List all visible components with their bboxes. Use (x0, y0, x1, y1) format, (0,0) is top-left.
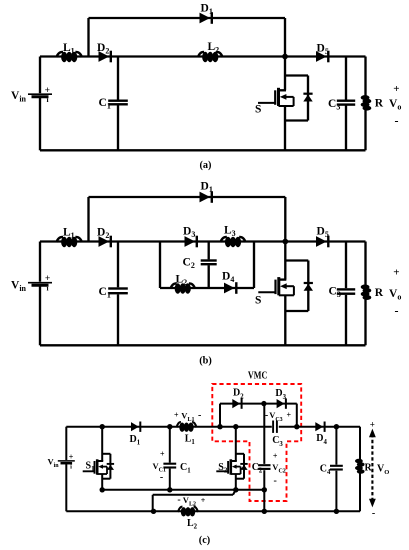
wire: main rail (b) (40, 240, 366, 242)
battery Vin (a) (28, 94, 52, 97)
svg-text:+: + (174, 411, 179, 420)
wire: main rail (a) (40, 55, 366, 57)
label + of VC3 (c) (287, 410, 292, 419)
node junction at switch/D5 (b) (282, 239, 288, 245)
label VMC (c) (248, 371, 268, 382)
diode D3 (b) (185, 236, 199, 248)
caption (b) (199, 356, 212, 367)
svg-text:R: R (375, 287, 384, 299)
label D3 (b) (183, 226, 195, 240)
svg-text:D3: D3 (183, 226, 195, 240)
svg-text:L2: L2 (208, 41, 220, 55)
body diode of S (b) (304, 282, 313, 291)
node C4 bottom (c) (334, 509, 339, 514)
label - of VL1 (c) (198, 410, 201, 421)
label S2 (c) (218, 462, 228, 475)
transistor S (a) MOSFET (258, 57, 308, 151)
label i of battery (c) (70, 463, 72, 470)
svg-text:D5: D5 (317, 43, 329, 57)
node C1 top (c) (167, 424, 172, 429)
diode D5 (b) (316, 236, 330, 248)
node S2 drain (c) (233, 424, 238, 429)
svg-text:-: - (198, 410, 201, 421)
label C3 (a) (328, 98, 340, 112)
Vo dashed arrow (c) (369, 429, 376, 508)
label C3 (b) (329, 286, 341, 300)
wire: top branch rail (b) (89, 196, 286, 198)
capacitor C3 (a) (337, 57, 355, 151)
svg-text:D1: D1 (201, 3, 213, 17)
label + of VC1 (c) (160, 450, 165, 459)
inductor L1 (a) (57, 52, 82, 62)
label VL1 (c) (181, 410, 194, 423)
svg-text:S2: S2 (218, 462, 228, 475)
svg-text:+: + (69, 453, 74, 462)
transistor S (b) MOSFET (258, 242, 308, 346)
wire: riser to top branch (b) (87, 197, 89, 242)
label C1 (c) (180, 462, 191, 475)
body diode of S1 (c) (107, 463, 114, 470)
label + output (b) (393, 266, 399, 278)
svg-text:VC3: VC3 (269, 410, 282, 423)
svg-text:C2: C2 (183, 257, 195, 271)
circuit (b) wire: left vertical from input rail to bottom rail (39, 242, 41, 346)
label Vin (c) (48, 457, 60, 470)
svg-text:C3: C3 (272, 435, 283, 448)
label D5 (a) (317, 43, 329, 57)
transistor S1 (c) MOSFET (83, 427, 111, 490)
node D2 branch left (c) (217, 424, 222, 429)
wire: top branch right drop (a) (284, 18, 286, 57)
svg-text:D2: D2 (97, 42, 109, 56)
label D3 (c) (275, 388, 286, 401)
wire: mid-network bottom branch (b) (160, 287, 254, 289)
svg-text:+: + (160, 450, 165, 459)
wire: bottom rail (c) (66, 510, 360, 512)
label D2 (b) (97, 227, 109, 241)
svg-text:D2: D2 (97, 227, 109, 241)
label + of battery (a) (45, 86, 50, 96)
wire: VMC top branch (c) (220, 403, 297, 405)
wire: top rail (c) (66, 426, 360, 428)
resistor R (c) load (355, 427, 365, 512)
caption (c) (199, 535, 210, 546)
capacitor C2 (c) (258, 464, 270, 470)
svg-text:S: S (255, 295, 261, 307)
capacitor C3 (b) (337, 242, 355, 346)
label D2 (a) (97, 42, 109, 56)
wire: VL2 link line (c) (153, 490, 236, 512)
battery Vin (b) (28, 283, 52, 286)
label R (a) (375, 98, 384, 110)
label - of VC3 (c) (265, 410, 268, 421)
inductor L1 (c) (177, 422, 197, 432)
label + of VL2 (c) (201, 496, 206, 505)
diode D2 (c) (232, 398, 242, 408)
diode D4 (b) (224, 282, 238, 294)
wire: VMC branch right drop (c) (296, 404, 298, 427)
diode D2 (b) (99, 236, 113, 248)
label S (b) (255, 295, 261, 307)
svg-text:L3: L3 (224, 225, 236, 239)
svg-text:VMC: VMC (248, 371, 268, 382)
svg-text:i: i (46, 95, 48, 104)
label + of battery (c) (69, 453, 74, 462)
label R (b) (375, 287, 384, 299)
inductor L3 (b) (221, 237, 246, 247)
svg-text:Vin: Vin (11, 90, 27, 104)
label Vin (b) (11, 280, 27, 294)
wire: top branch right drop (b) (284, 197, 286, 242)
svg-text:(c): (c) (199, 535, 210, 546)
svg-text:D1: D1 (130, 434, 141, 447)
svg-text:-: - (395, 114, 399, 128)
node S2 source (c) (233, 487, 238, 492)
inductor L1 (b) (57, 237, 82, 247)
svg-text:-: - (160, 472, 163, 483)
battery Vin (c) (58, 461, 75, 463)
label Vo (a) (389, 98, 401, 112)
label - of VC2 (c) (274, 476, 277, 487)
capacitor C1 (b) (108, 242, 128, 346)
label + of battery (b) (45, 274, 50, 284)
svg-text:(a): (a) (199, 160, 211, 171)
node C1 bottom (c) (167, 487, 172, 492)
wire: mid-network left drop (b) (159, 242, 161, 289)
label S1 (c) (86, 460, 96, 473)
label - of VL2 (c) (177, 495, 180, 506)
capacitor C4 (c) (330, 427, 343, 512)
svg-text:D5: D5 (317, 226, 329, 240)
label - of VC1 (c) (160, 472, 163, 483)
label VC2 (c) (272, 462, 285, 475)
svg-text:L2: L2 (187, 518, 198, 531)
svg-text:+: + (393, 266, 399, 278)
node C4 top (c) (334, 424, 339, 429)
label L1 (c) (185, 433, 196, 446)
circuit (c) wire: left vertical (65, 427, 67, 512)
svg-text:i: i (70, 463, 72, 470)
label - output (b) (395, 304, 399, 318)
VMC red dashed boundary (c) (212, 384, 301, 501)
svg-text:Vo: Vo (389, 288, 401, 302)
label - output (c) (372, 508, 375, 519)
inductor L2 (b) (171, 283, 196, 293)
label C1 (b) (99, 286, 111, 300)
inductor L2 (a) (198, 52, 223, 62)
diode D3 (c) (277, 398, 287, 408)
inductor L2 (c) (178, 507, 198, 517)
body diode of S (a) (303, 93, 312, 102)
wire: bottom rail (b) (40, 344, 366, 346)
diode D1 (c) (131, 422, 141, 432)
wire: top branch rail (a) (89, 17, 286, 19)
node C2 column bottom mid (c) (262, 487, 267, 492)
label L1 (b) (63, 227, 75, 241)
diode D5 (a) (316, 51, 330, 63)
svg-text:i: i (46, 283, 48, 292)
label + of VC2 (c) (273, 451, 278, 460)
label + output (a) (393, 83, 399, 95)
label C1 (a) (99, 97, 111, 111)
wire: bottom rail (a) (40, 149, 366, 151)
svg-text:VL1: VL1 (181, 410, 194, 423)
label Vo (b) (389, 288, 401, 302)
svg-text:(b): (b) (199, 356, 212, 367)
diode D1 (b) (200, 191, 214, 203)
node junction at switch/D5 (a) (282, 54, 288, 60)
svg-text:C1: C1 (99, 97, 111, 111)
svg-text:S: S (255, 104, 261, 116)
diode D2 (a) (99, 51, 113, 63)
diode D4 (c) (315, 422, 325, 432)
node between D2 and D3 (c) (261, 401, 266, 406)
svg-text:L1: L1 (63, 42, 75, 56)
label R (c) (365, 463, 373, 474)
svg-text:L1: L1 (185, 433, 196, 446)
wire: mid line sources (c) (102, 489, 264, 491)
label D5 (b) (317, 226, 329, 240)
label C2 (b) (183, 257, 195, 271)
svg-text:Vo: Vo (389, 98, 401, 112)
svg-text:D3: D3 (275, 388, 286, 401)
label L1 (a) (63, 42, 75, 56)
circuit (a) wire: left vertical from input rail to bottom rail (39, 57, 41, 151)
transistor S2 (c) MOSFET (216, 427, 244, 490)
label VC3 (c) (269, 410, 282, 423)
label C2 (c) (252, 462, 263, 475)
svg-text:C1: C1 (180, 462, 191, 475)
capacitor C3 series (c) (272, 421, 278, 433)
label C4 (c) (320, 464, 331, 477)
svg-text:+: + (287, 410, 292, 419)
svg-text:D4: D4 (316, 433, 327, 446)
label S (a) (255, 104, 261, 116)
wire: mid-network right riser (b) (253, 242, 255, 289)
svg-text:+: + (393, 83, 399, 95)
wire: VC2 column (c) (263, 404, 265, 512)
svg-text:-: - (274, 476, 277, 487)
svg-text:-: - (265, 410, 268, 421)
svg-text:C3: C3 (329, 286, 341, 300)
svg-text:D2: D2 (233, 388, 244, 401)
svg-text:VO: VO (377, 464, 389, 477)
svg-text:C2: C2 (252, 462, 263, 475)
label Vin (a) (11, 90, 27, 104)
label D4 (c) (316, 433, 327, 446)
node S1 source (c) (100, 487, 105, 492)
svg-text:VC2: VC2 (272, 462, 285, 475)
label L2 (c) (187, 518, 198, 531)
svg-text:-: - (372, 508, 375, 519)
svg-text:-: - (395, 304, 399, 318)
svg-text:+: + (201, 496, 206, 505)
svg-text:L1: L1 (63, 227, 75, 241)
node C2 column bottom rail (c) (262, 509, 267, 514)
label i of battery (b) (46, 283, 48, 292)
capacitor C1 (c) (163, 427, 176, 490)
svg-text:R: R (375, 98, 384, 110)
node S1 drain (c) (100, 424, 105, 429)
svg-text:R: R (365, 463, 373, 474)
resistor R (b) load (361, 242, 372, 346)
label + of VL1 (c) (174, 411, 179, 420)
label + output (c) (370, 419, 375, 429)
label - output (a) (395, 114, 399, 128)
label L2 (a) (208, 41, 220, 55)
svg-text:Vin: Vin (48, 457, 60, 470)
label i of battery (a) (46, 95, 48, 104)
label VC1 (c) (153, 461, 166, 474)
svg-text:-: - (177, 495, 180, 506)
resistor R (a) load (361, 57, 372, 151)
wire: riser to top branch (a) (87, 18, 89, 57)
label Vo (c) (377, 464, 389, 477)
svg-text:Vin: Vin (11, 280, 27, 294)
label D1 (b) (201, 181, 213, 195)
svg-text:D1: D1 (201, 181, 213, 195)
node VMC right on rail (c) (294, 424, 299, 429)
wire: D2 branch left riser (c) (219, 404, 221, 427)
capacitor C1 (a) (108, 57, 128, 151)
svg-text:+: + (273, 451, 278, 460)
svg-text:C4: C4 (320, 464, 331, 477)
caption (a) (199, 160, 211, 171)
svg-text:D4: D4 (222, 271, 234, 285)
body diode of S2 (c) (240, 463, 247, 470)
label D4 (b) (222, 271, 234, 285)
label L2 (b) (176, 274, 188, 288)
label VL2 (c) (183, 495, 196, 508)
label C3 (c) (272, 435, 283, 448)
svg-text:L2: L2 (176, 274, 188, 288)
label D1 (c) (130, 434, 141, 447)
node VL2 link on bottom rail (c) (151, 509, 156, 514)
diode D1 (a) (200, 12, 214, 24)
svg-text:+: + (370, 419, 375, 429)
label D2 (c) (233, 388, 244, 401)
capacitor C2 (b) (201, 242, 217, 289)
label L3 (b) (224, 225, 236, 239)
label D1 (a) (201, 3, 213, 17)
